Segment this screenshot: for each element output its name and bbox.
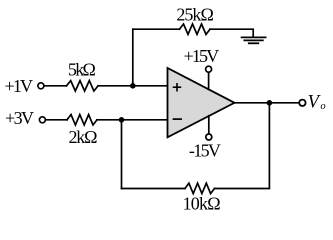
wire node A to op-amp noninverting input xyxy=(133,85,168,87)
source terminal +3V xyxy=(39,117,45,123)
ground xyxy=(242,37,266,43)
source terminal +1V xyxy=(38,83,44,89)
wire +3V terminal to 2k resistor xyxy=(46,119,67,121)
output node junction dot xyxy=(267,100,273,106)
wire bottom left corner to 10k resistor xyxy=(122,188,186,190)
wire node B to op-amp inverting input xyxy=(122,119,168,121)
resistor 10k xyxy=(185,183,215,193)
svg-text:5kΩ: 5kΩ xyxy=(68,59,96,79)
positive supply terminal +15V xyxy=(206,66,212,72)
svg-text:+1V: +1V xyxy=(5,76,34,96)
svg-text:10kΩ: 10kΩ xyxy=(183,193,221,213)
svg-text:Vo: Vo xyxy=(308,93,326,113)
node A junction dot xyxy=(130,83,136,89)
resistor 2k xyxy=(67,115,97,125)
output terminal Vo xyxy=(299,100,305,106)
svg-text:25kΩ: 25kΩ xyxy=(176,4,214,24)
wire 2k resistor to node B xyxy=(97,119,122,121)
positive supply lead wire xyxy=(208,73,210,90)
wire 25k resistor to ground stem xyxy=(210,29,253,37)
op-amp plus input marking xyxy=(174,84,181,91)
wire +1V terminal to 5k resistor xyxy=(44,85,66,87)
svg-text:2kΩ: 2kΩ xyxy=(69,127,98,147)
wire node B down to bottom feedback branch xyxy=(121,120,123,189)
op-amp minus input marking xyxy=(174,118,182,120)
svg-text:+3V: +3V xyxy=(5,108,34,128)
wire 5k resistor to node A xyxy=(98,85,133,87)
resistor 5k xyxy=(67,81,99,91)
node B junction dot xyxy=(119,117,125,123)
resistor 25k xyxy=(180,24,211,34)
negative supply lead wire xyxy=(208,116,210,134)
wire top left corner to 25k resistor xyxy=(133,28,180,30)
wire 10k resistor to output node xyxy=(215,103,270,189)
svg-text:+15V: +15V xyxy=(184,46,220,66)
wire node A up to top branch xyxy=(132,29,134,86)
op-amp U1 xyxy=(168,68,235,137)
wire op-amp output to Vo terminal xyxy=(235,102,300,104)
svg-text:-15V: -15V xyxy=(189,141,221,161)
negative supply terminal -15V xyxy=(206,134,212,140)
